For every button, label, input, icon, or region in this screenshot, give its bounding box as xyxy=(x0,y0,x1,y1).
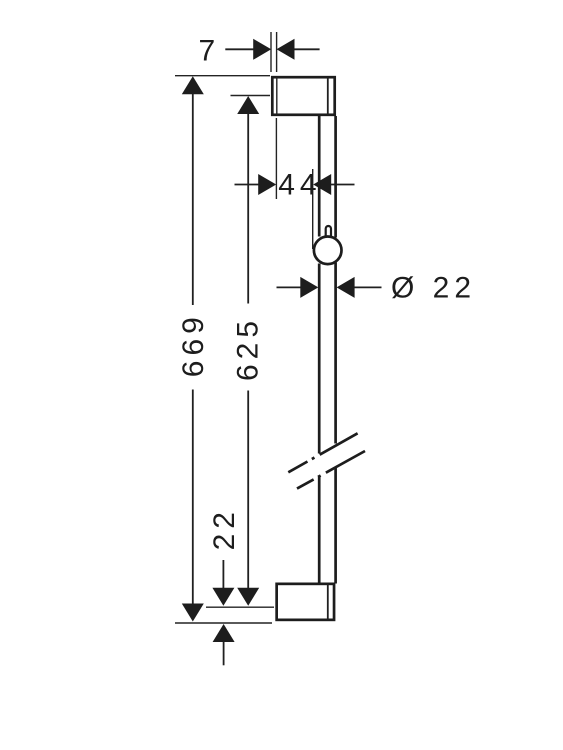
svg-text:44: 44 xyxy=(278,169,321,202)
svg-text:22: 22 xyxy=(208,507,241,550)
svg-text:Ø 22: Ø 22 xyxy=(391,272,476,305)
svg-text:7: 7 xyxy=(198,35,220,68)
svg-text:669: 669 xyxy=(177,312,210,377)
svg-text:625: 625 xyxy=(232,316,265,381)
